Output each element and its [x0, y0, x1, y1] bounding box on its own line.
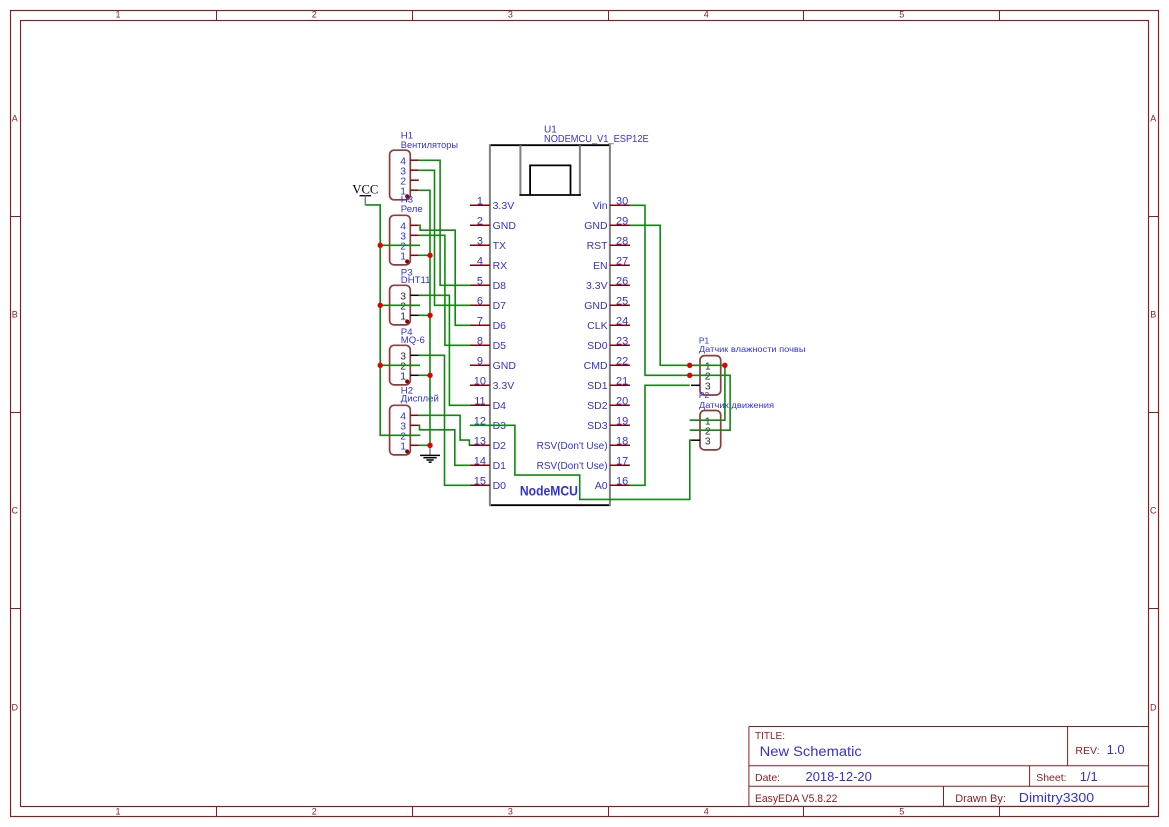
- svg-text:19: 19: [616, 416, 628, 428]
- U1 pin 23 SD0: [610, 344, 630, 346]
- svg-text:D: D: [12, 703, 19, 713]
- svg-text:NODEMCU_V1_ESP12E: NODEMCU_V1_ESP12E: [544, 134, 649, 145]
- svg-text:A: A: [1150, 113, 1156, 123]
- H2 pin 3: [410, 424, 419, 426]
- svg-text:3.3V: 3.3V: [586, 280, 608, 292]
- svg-text:Sheet:: Sheet:: [1036, 772, 1066, 784]
- U1 pin 2 GND: [470, 224, 490, 226]
- U1 pin 16 A0: [610, 484, 630, 486]
- wire H2.1 to gnd rail: [419, 444, 430, 446]
- svg-text:2: 2: [312, 806, 317, 816]
- svg-text:1: 1: [115, 806, 120, 816]
- svg-text:15: 15: [474, 476, 486, 488]
- svg-text:A0: A0: [595, 480, 608, 492]
- H2 pin1 marker: [405, 449, 409, 453]
- svg-text:30: 30: [616, 196, 628, 208]
- wire H2.4 to U1 D2: [419, 415, 471, 445]
- svg-text:DHT11: DHT11: [401, 275, 431, 286]
- P3 pin 1: [410, 314, 419, 316]
- svg-text:25: 25: [616, 296, 628, 308]
- svg-text:Drawn By:: Drawn By:: [955, 793, 1006, 805]
- U1 pin 7 D6: [470, 324, 490, 326]
- op IC U1 NODEMCU_V1_ESP12E body: [490, 144, 610, 146]
- svg-text:4: 4: [704, 806, 709, 816]
- svg-text:A: A: [12, 113, 18, 123]
- P2 pin 1: [691, 419, 700, 421]
- svg-text:11: 11: [474, 396, 485, 408]
- svg-text:Date:: Date:: [755, 772, 780, 784]
- svg-text:3: 3: [477, 236, 483, 248]
- svg-text:2018-12-20: 2018-12-20: [806, 769, 872, 784]
- svg-text:9: 9: [477, 356, 483, 368]
- H1 pin1 marker: [405, 194, 409, 198]
- H1 pin 4: [410, 159, 419, 161]
- P1 pin 2: [691, 374, 700, 376]
- U1 pin 4 RX: [470, 264, 490, 266]
- U1 pin 15 D0: [470, 484, 490, 486]
- svg-text:1/1: 1/1: [1080, 769, 1098, 784]
- U1 pin 5 D8: [470, 284, 490, 286]
- connector H2 Дисплей: [390, 405, 411, 455]
- svg-text:B: B: [12, 310, 18, 320]
- U1 pin 17 RSV(Don't Use): [610, 464, 630, 466]
- svg-text:10: 10: [474, 376, 486, 388]
- svg-text:B: B: [1150, 310, 1156, 320]
- U1 pin 26 3.3V: [610, 284, 630, 286]
- junction node at 380.2,365.3: [378, 363, 383, 368]
- svg-text:17: 17: [616, 456, 628, 468]
- wire H1.4 to U1 D8: [419, 160, 470, 285]
- wire U1 GND29 to P1.1 and P2.1: [630, 225, 725, 420]
- H2 pin 1: [410, 444, 419, 446]
- P4 pin 3: [410, 354, 419, 356]
- svg-text:D6: D6: [493, 320, 507, 332]
- U1 pin 20 SD2: [610, 404, 630, 406]
- svg-text:1: 1: [477, 196, 483, 208]
- connector P3 DHT11: [390, 285, 411, 325]
- svg-text:13: 13: [474, 436, 486, 448]
- U1 pin 6 D7: [470, 304, 490, 306]
- svg-text:24: 24: [616, 316, 628, 328]
- wire P3.1 to gnd rail: [419, 314, 430, 316]
- junction node at 380.2,305.3: [378, 303, 383, 308]
- svg-text:3.3V: 3.3V: [493, 200, 515, 212]
- U1 pin 13 D2: [470, 444, 490, 446]
- U1 pin 10 3.3V: [470, 384, 490, 386]
- svg-text:D5: D5: [493, 340, 507, 352]
- U1 pin 19 SD3: [610, 424, 630, 426]
- P4 pin 1: [410, 374, 419, 376]
- U1 antenna notch outer: [519, 145, 521, 195]
- junction node at 430.0,445.3: [427, 443, 432, 448]
- U1 pin 11 D4: [470, 404, 490, 406]
- svg-text:8: 8: [477, 336, 483, 348]
- svg-text:Vin: Vin: [593, 200, 608, 212]
- wire VCC rail to H2.2: [365, 205, 420, 435]
- H3 pin 3: [410, 234, 419, 236]
- svg-text:20: 20: [616, 396, 628, 408]
- svg-text:6: 6: [477, 296, 483, 308]
- svg-text:C: C: [12, 506, 19, 516]
- svg-text:TX: TX: [493, 240, 506, 252]
- svg-text:D1: D1: [493, 460, 507, 472]
- H3 pin1 marker: [405, 259, 409, 263]
- wire U1 Vin to P1.2 and P2.2: [630, 205, 730, 430]
- svg-text:Дисплей: Дисплей: [401, 394, 439, 405]
- U1 pin 28 RST: [610, 244, 630, 246]
- ground symbol: [429, 445, 431, 455]
- U1 antenna notch inner: [530, 165, 570, 195]
- svg-text:3.3V: 3.3V: [493, 380, 515, 392]
- svg-text:28: 28: [616, 236, 628, 248]
- svg-text:Реле: Реле: [401, 204, 423, 215]
- svg-text:SD2: SD2: [587, 400, 608, 412]
- svg-text:D2: D2: [493, 440, 507, 452]
- U1 pin 18 RSV(Don't Use): [610, 444, 630, 446]
- svg-text:GND: GND: [493, 360, 517, 372]
- svg-text:P2: P2: [699, 390, 710, 400]
- svg-text:SD0: SD0: [587, 340, 608, 352]
- svg-text:Датчик движения: Датчик движения: [699, 400, 774, 410]
- U1 pin 8 D5: [470, 344, 490, 346]
- U1 pin 22 CMD: [610, 364, 630, 366]
- svg-text:D7: D7: [493, 300, 507, 312]
- svg-text:VCC: VCC: [352, 182, 378, 196]
- H3 pin 1: [410, 254, 419, 256]
- svg-text:EN: EN: [593, 260, 608, 272]
- H1 pin 1: [410, 189, 419, 191]
- svg-text:SD1: SD1: [587, 380, 608, 392]
- U1 pin 12 D3: [470, 424, 490, 426]
- wire U1 A0 to P1.3: [630, 385, 690, 485]
- svg-text:Dimitry3300: Dimitry3300: [1019, 790, 1094, 805]
- svg-text:4: 4: [704, 10, 709, 20]
- H3 pin 2: [410, 244, 419, 246]
- U1 pin 30 Vin: [610, 204, 630, 206]
- svg-text:4: 4: [477, 256, 483, 268]
- connector H1 Вентиляторы: [390, 150, 411, 200]
- P1 pin 3: [691, 384, 700, 386]
- svg-text:14: 14: [474, 456, 486, 468]
- svg-text:GND: GND: [584, 220, 608, 232]
- wire U1 D3 to P2.3: [470, 425, 691, 499]
- svg-text:3: 3: [508, 806, 513, 816]
- svg-text:RST: RST: [587, 240, 609, 252]
- svg-text:5: 5: [899, 10, 904, 20]
- svg-text:22: 22: [616, 356, 628, 368]
- svg-text:5: 5: [899, 806, 904, 816]
- junction node at 380.2,245.3: [378, 243, 383, 248]
- P1 pin 1: [691, 364, 700, 366]
- U1 pin 14 D1: [470, 464, 490, 466]
- P3 pin 3: [410, 294, 419, 296]
- svg-text:REV:: REV:: [1075, 745, 1099, 757]
- U1 pin 24 CLK: [610, 324, 630, 326]
- wire P4.3 to U1 D0: [419, 355, 470, 485]
- svg-text:5: 5: [477, 276, 483, 288]
- svg-text:29: 29: [616, 216, 628, 228]
- U1 pin 1 3.3V: [470, 204, 490, 206]
- svg-text:MQ-6: MQ-6: [401, 335, 425, 346]
- wire VCC to H3.2: [380, 244, 420, 246]
- svg-text:SD3: SD3: [587, 420, 608, 432]
- U1 pin 25 GND: [610, 304, 630, 306]
- svg-text:RSV(Don't Use): RSV(Don't Use): [537, 460, 608, 472]
- P3 pin 2: [410, 304, 419, 306]
- U1 pin 21 SD1: [610, 384, 630, 386]
- H3 pin 4: [410, 224, 419, 226]
- svg-text:RSV(Don't Use): RSV(Don't Use): [537, 440, 608, 452]
- U1 pin 29 GND: [610, 224, 630, 226]
- svg-text:1: 1: [115, 10, 120, 20]
- P4 pin 2: [410, 364, 419, 366]
- svg-text:EasyEDA V5.8.22: EasyEDA V5.8.22: [755, 793, 837, 805]
- junction node at 430.0,315.3: [427, 313, 432, 318]
- title block: [749, 726, 1149, 728]
- U1 pin 3 TX: [470, 244, 490, 246]
- svg-text:GND: GND: [493, 220, 517, 232]
- U1 pin 9 GND: [470, 364, 490, 366]
- svg-text:D: D: [1150, 703, 1157, 713]
- svg-text:Вентиляторы: Вентиляторы: [401, 140, 458, 151]
- connector P2 Датчик движения: [700, 411, 721, 450]
- junction node at 689.7,365.3: [687, 363, 692, 368]
- H1 pin 3: [410, 169, 419, 171]
- svg-text:27: 27: [616, 256, 628, 268]
- svg-text:D0: D0: [493, 480, 507, 492]
- wire H2.3 to U1 D1: [419, 425, 470, 465]
- svg-text:26: 26: [616, 276, 628, 288]
- H1 pin 2: [410, 179, 419, 181]
- junction node at 724.9,365.3: [722, 363, 727, 368]
- connector H3 Реле: [390, 215, 411, 265]
- svg-text:16: 16: [616, 476, 628, 488]
- junction node at 430.0,255.3: [427, 253, 432, 258]
- U1 pin 27 EN: [610, 264, 630, 266]
- wire H3.4 to U1 D6: [419, 225, 470, 325]
- svg-text:21: 21: [616, 376, 628, 388]
- svg-text:CLK: CLK: [587, 320, 607, 332]
- P3 pin1 marker: [405, 319, 409, 323]
- svg-text:1.0: 1.0: [1107, 742, 1125, 757]
- svg-text:D8: D8: [493, 280, 507, 292]
- connector P1 Датчик влажности почвы: [700, 356, 721, 395]
- junction node at 430.0,375.3: [427, 373, 432, 378]
- P2 pin 3: [691, 439, 700, 441]
- svg-text:NodeMCU: NodeMCU: [520, 483, 578, 498]
- H2 pin 2: [410, 434, 419, 436]
- P4 pin1 marker: [405, 379, 409, 383]
- wire VCC to P3.2: [380, 304, 420, 306]
- wire P3.3 to U1 D4: [419, 295, 470, 405]
- connector P4 MQ-6: [390, 345, 411, 385]
- wire H1.1 gnd rail: [419, 190, 430, 445]
- svg-text:D4: D4: [493, 400, 507, 412]
- svg-text:TITLE:: TITLE:: [755, 731, 785, 742]
- svg-text:3: 3: [508, 10, 513, 20]
- svg-text:C: C: [1150, 506, 1157, 516]
- wire H3.1 to gnd rail: [419, 254, 430, 256]
- H2 pin 4: [410, 414, 419, 416]
- svg-text:Датчик влажности почвы: Датчик влажности почвы: [699, 344, 806, 354]
- svg-text:18: 18: [616, 436, 628, 448]
- svg-text:7: 7: [477, 316, 483, 328]
- svg-text:D3: D3: [493, 420, 507, 432]
- svg-text:New Schematic: New Schematic: [760, 743, 862, 759]
- svg-text:2: 2: [312, 10, 317, 20]
- wire H1.3 to U1 D7: [419, 170, 470, 305]
- wire VCC to P4.2: [380, 364, 420, 366]
- svg-text:3: 3: [705, 436, 711, 447]
- junction node at 689.7,375.3: [687, 373, 692, 378]
- wire H3.3 to U1 D5: [419, 235, 470, 345]
- svg-text:RX: RX: [493, 260, 508, 272]
- svg-text:GND: GND: [584, 300, 608, 312]
- svg-text:2: 2: [477, 216, 483, 228]
- svg-text:CMD: CMD: [584, 360, 608, 372]
- wire P4.1 to gnd rail: [419, 374, 430, 376]
- P2 pin 2: [691, 429, 700, 431]
- svg-text:23: 23: [616, 336, 628, 348]
